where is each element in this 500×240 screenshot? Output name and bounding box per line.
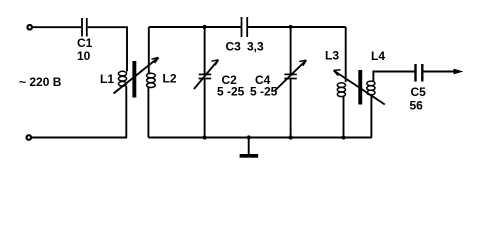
node ground junction (247, 135, 251, 139)
capacitor C5 (416, 64, 423, 82)
wire top rail right (247, 26, 346, 28)
wire L1 bottom (125, 86, 127, 138)
svg-text:~ 220 В: ~ 220 В (19, 75, 62, 89)
wire C4 lower (290, 79, 292, 138)
wire input top to C1 (33, 26, 81, 28)
wire C1 to L1 top corner (88, 27, 127, 71)
svg-text:C1: C1 (77, 36, 93, 50)
capacitor C2 trimmer (199, 74, 212, 78)
node L3 bottom (341, 135, 345, 139)
wire L4 bottom (370, 95, 372, 138)
wire L2 bottom (147, 87, 149, 137)
node C4 bottom (289, 135, 293, 139)
wire output (424, 71, 457, 73)
output arrow (454, 69, 464, 75)
wire bottom rail (148, 137, 371, 139)
svg-text:3,3: 3,3 (247, 40, 264, 54)
input terminal top (27, 25, 32, 30)
capacitor C3 (242, 17, 248, 37)
wire top rail left (149, 26, 242, 28)
transformer T2 tuning arrow (334, 70, 385, 105)
svg-text:5 -25: 5 -25 (217, 85, 245, 99)
wire L3 bottom (343, 96, 345, 137)
svg-text:56: 56 (410, 99, 424, 113)
transformer T1 core (132, 61, 136, 98)
inductor L2 (147, 73, 156, 87)
node C2 bottom (203, 135, 207, 139)
wire L3 top (345, 27, 347, 82)
arrow C4 (275, 60, 306, 90)
wire L2 top (148, 27, 150, 74)
ground (240, 138, 259, 158)
wire C2 lower (204, 79, 206, 138)
wire C4 upper (290, 27, 292, 74)
arrow C2 (194, 60, 218, 89)
wire input bottom (31, 137, 127, 139)
inductor L1 (118, 71, 126, 86)
svg-text:5 -25: 5 -25 (250, 85, 278, 99)
inductor L3 (337, 83, 345, 97)
capacitor C1 (82, 18, 87, 37)
svg-text:C5: C5 (411, 85, 427, 99)
svg-text:10: 10 (77, 49, 91, 63)
node C4 top (289, 25, 293, 29)
svg-text:L4: L4 (371, 49, 385, 63)
svg-text:C3: C3 (226, 40, 242, 54)
node C2 top (203, 25, 207, 29)
svg-text:L2: L2 (163, 72, 177, 86)
wire C2 upper (204, 27, 206, 74)
capacitor C4 trimmer (284, 74, 297, 78)
svg-text:L3: L3 (325, 49, 339, 63)
transformer T1 tuning arrow (114, 58, 159, 94)
wire L4 top to C5 (373, 72, 414, 82)
input terminal bottom (27, 135, 32, 140)
inductor L4 (367, 81, 375, 95)
svg-text:L1: L1 (100, 72, 114, 86)
transformer T2 core (358, 70, 362, 105)
